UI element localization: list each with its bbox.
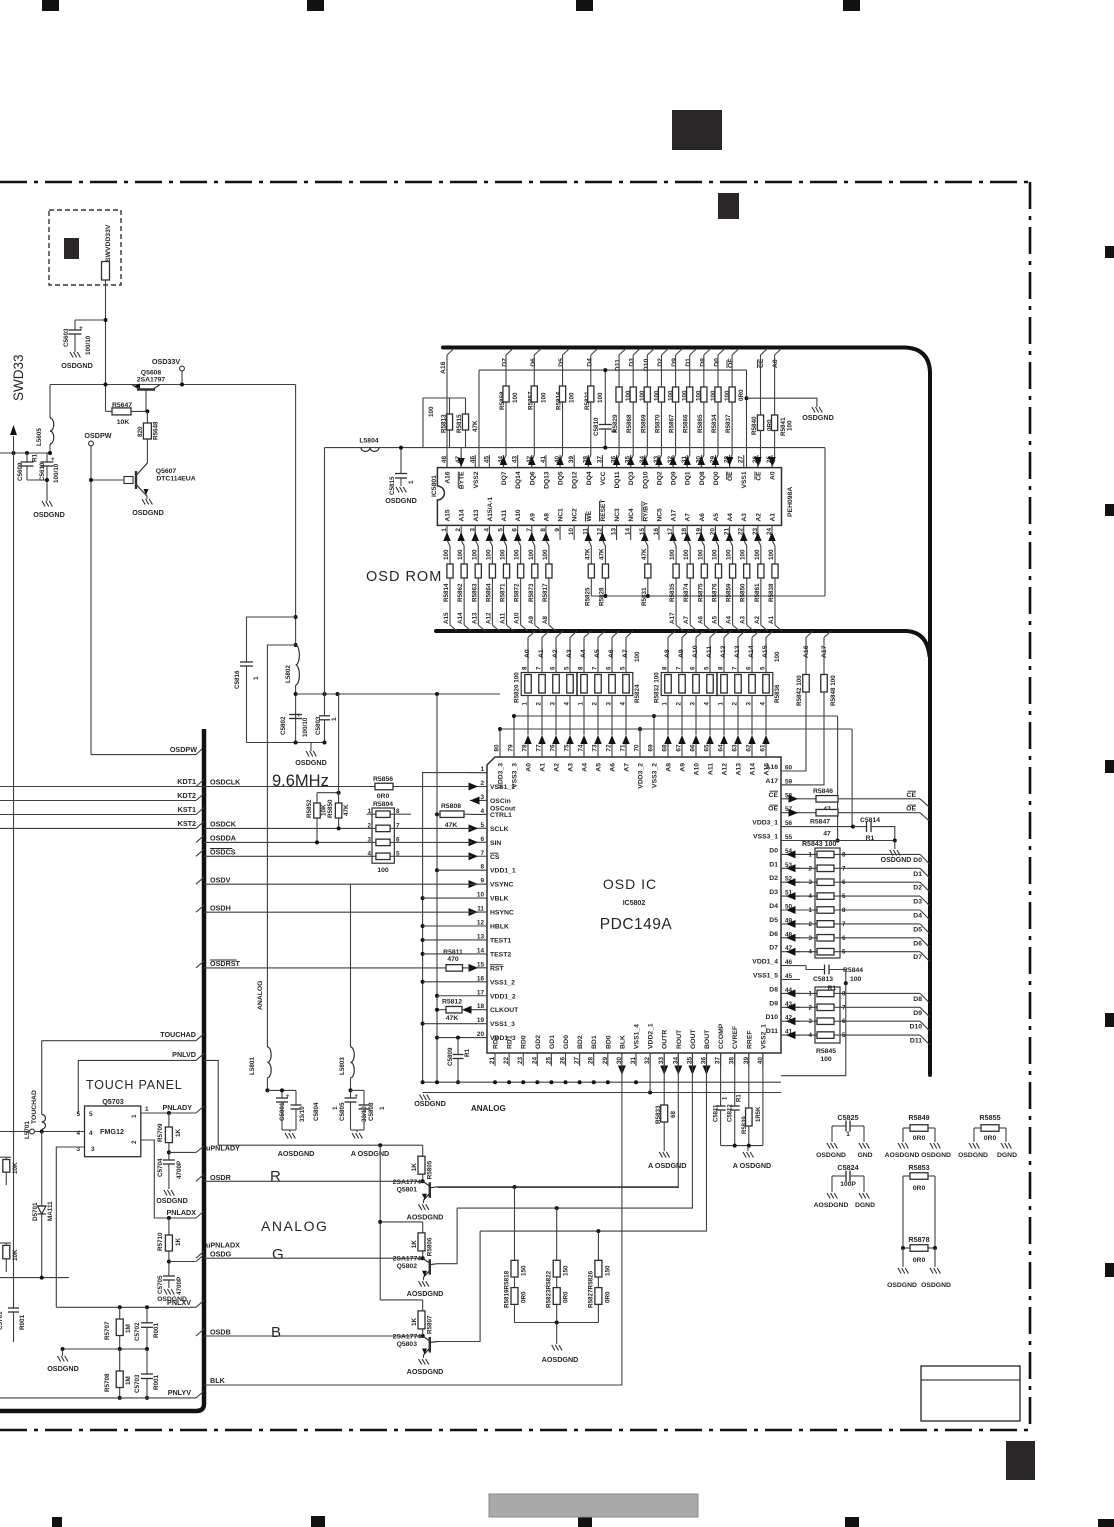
IC5802 pin 27 <box>579 1053 581 1066</box>
svg-text:1: 1 <box>131 1114 138 1118</box>
svg-text:R5710: R5710 <box>157 1232 164 1251</box>
ground rail C5801 C5804 <box>282 1129 296 1131</box>
svg-text:D10: D10 <box>643 359 650 372</box>
R5843 element pin 48 <box>786 934 796 942</box>
svg-text:R1: R1 <box>32 453 39 462</box>
ROM pin 21 <box>729 525 731 540</box>
svg-text:5: 5 <box>480 822 484 829</box>
svg-text:0R0: 0R0 <box>563 1291 570 1303</box>
svg-text:A0: A0 <box>772 359 779 368</box>
ROM pin 31 <box>686 455 688 468</box>
svg-text:2SA1774: 2SA1774 <box>393 1256 422 1263</box>
svg-text:MA111: MA111 <box>47 1201 54 1221</box>
svg-text:62: 62 <box>746 744 753 752</box>
ROM pin 19 <box>700 525 702 540</box>
supply drop for followers <box>379 1145 381 1300</box>
svg-text:VSS2: VSS2 <box>473 471 480 488</box>
wire A14 column <box>751 638 753 673</box>
arrow OUTR pin33 <box>660 1066 668 1076</box>
svg-text:A17: A17 <box>766 778 779 785</box>
wire A17 to address bus <box>675 578 677 625</box>
resistor 10K lower <box>0 1242 11 1244</box>
IC5802 pin 64 <box>723 744 725 757</box>
VCC rail of OSD ROM <box>325 447 826 449</box>
ROM pin 14 <box>630 525 632 540</box>
svg-text:VDD2_1: VDD2_1 <box>648 1023 655 1049</box>
svg-text:46: 46 <box>469 456 476 464</box>
ROM pin 11 <box>587 525 589 540</box>
svg-text:+: + <box>286 1094 290 1100</box>
IC5802 pin 74 <box>583 744 585 757</box>
svg-text:74: 74 <box>578 744 585 752</box>
svg-text:A4: A4 <box>582 763 589 772</box>
svg-text:100: 100 <box>634 651 641 662</box>
svg-text:D8: D8 <box>769 986 778 993</box>
wire B output <box>438 1231 481 1341</box>
IC5802 pin 3 <box>470 799 487 801</box>
svg-text:DQ9: DQ9 <box>671 471 678 485</box>
R5804 element 4 <box>376 853 390 860</box>
bus entry D6 <box>534 349 541 356</box>
svg-text:DQ0: DQ0 <box>713 471 720 485</box>
svg-text:A OSDGND: A OSDGND <box>351 1149 389 1158</box>
svg-text:C5704: C5704 <box>157 1158 164 1177</box>
svg-text:PEH098A: PEH098A <box>787 487 794 517</box>
wire A9 to address bus <box>534 578 536 625</box>
svg-text:27: 27 <box>574 1057 581 1065</box>
wire KDT1/OSDCLK <box>0 786 470 788</box>
wire OSDV <box>204 883 478 885</box>
svg-text:VDD1_4: VDD1_4 <box>752 959 778 966</box>
svg-text:R5805: R5805 <box>427 1160 434 1179</box>
black block inside dashed box <box>64 238 79 259</box>
svg-text:D1: D1 <box>769 861 778 868</box>
pull-up return rail to VCC <box>591 595 825 597</box>
svg-text:CS: CS <box>490 854 500 861</box>
svg-text:R5648: R5648 <box>153 421 160 440</box>
off-page arrow up <box>13 436 15 453</box>
svg-text:R: R <box>270 1168 281 1185</box>
svg-text:R5827R5826: R5827R5826 <box>587 1270 594 1308</box>
ground AOSDGND under R5833 <box>659 1152 662 1158</box>
left pullup column <box>13 453 15 1307</box>
R5845 element pin 41 <box>786 1031 796 1039</box>
svg-text:47K: 47K <box>472 420 479 432</box>
R5804 row1 stub <box>400 813 411 815</box>
svg-text:A2: A2 <box>754 615 761 624</box>
svg-text:D10: D10 <box>910 1024 923 1031</box>
bus entry D8 <box>920 993 930 1003</box>
svg-text:OSDGND: OSDGND <box>61 361 93 370</box>
svg-text:A11: A11 <box>501 509 508 521</box>
svg-text:A5: A5 <box>596 763 603 772</box>
svg-text:R5847: R5847 <box>810 819 830 826</box>
revision table divider <box>921 1379 1020 1381</box>
svg-text:C5609: C5609 <box>17 462 24 481</box>
IC5802 pin 6 <box>470 841 487 843</box>
svg-text:4: 4 <box>76 1130 80 1137</box>
svg-text:L5605: L5605 <box>36 428 43 446</box>
svg-text:25: 25 <box>545 1057 552 1065</box>
svg-text:L5802: L5802 <box>285 665 292 683</box>
bus entry D4 <box>920 910 930 920</box>
svg-text:A9: A9 <box>680 763 687 772</box>
R5843 element pin 54 <box>786 850 796 858</box>
wire A12 column <box>723 638 725 673</box>
resistor R5826 150 and R5827 0R0 stack <box>597 1231 599 1260</box>
svg-text:DQ1: DQ1 <box>685 471 692 485</box>
ground AOSDGND under C5805 <box>352 1133 355 1139</box>
svg-text:5: 5 <box>89 1111 93 1118</box>
svg-text:1: 1 <box>379 1106 386 1110</box>
svg-text:8: 8 <box>842 851 846 858</box>
wire pin10 VBLK <box>423 897 470 899</box>
svg-text:100: 100 <box>669 549 676 560</box>
svg-text:A17: A17 <box>821 645 828 658</box>
ROM pin 13 <box>616 525 618 540</box>
svg-text:D8: D8 <box>699 358 706 367</box>
svg-text:100: 100 <box>443 549 450 560</box>
svg-text:R5808: R5808 <box>441 803 461 810</box>
svg-text:A14: A14 <box>750 763 757 776</box>
svg-text:OSDGND: OSDGND <box>33 510 65 519</box>
IC5802 pin 31 <box>635 1053 637 1066</box>
svg-text:R5806: R5806 <box>427 1237 434 1256</box>
resistor R5817 100 <box>542 532 550 541</box>
wire A8 column <box>667 638 669 673</box>
wire OSDG <box>204 1257 423 1259</box>
branch to R5806 <box>380 1221 423 1223</box>
svg-text:C5705: C5705 <box>157 1275 164 1294</box>
IC5802 pin 57 <box>781 812 800 814</box>
svg-text:OSDH: OSDH <box>210 904 231 913</box>
svg-text:1: 1 <box>809 907 813 914</box>
svg-text:R5835: R5835 <box>669 583 676 602</box>
svg-text:13: 13 <box>611 528 618 536</box>
IC5802 pin 70 <box>639 744 641 757</box>
wire D4 to ROM pin 38 <box>588 402 591 468</box>
wire Q5703 pin2 PNLADX <box>141 1140 196 1218</box>
svg-text:uPNLADX: uPNLADX <box>206 1241 240 1250</box>
svg-text:D2: D2 <box>913 885 922 892</box>
ROM pin 22 <box>743 525 745 540</box>
svg-text:7: 7 <box>480 850 484 857</box>
ground AOSDGND under Q5802 <box>419 1281 422 1287</box>
svg-text:OSDGND: OSDGND <box>156 1196 188 1205</box>
svg-text:OSDV: OSDV <box>210 876 231 885</box>
svg-text:A13: A13 <box>736 763 743 776</box>
wire D0 to ROM pin 29 <box>715 402 718 468</box>
svg-text:VSS1: VSS1 <box>741 471 748 488</box>
svg-text:2: 2 <box>809 1004 813 1011</box>
resistor R5805 1K <box>422 1145 424 1156</box>
svg-text:61: 61 <box>760 744 767 752</box>
svg-text:R5846: R5846 <box>813 788 833 795</box>
svg-text:2: 2 <box>809 865 813 872</box>
svg-text:2: 2 <box>131 1140 138 1144</box>
svg-text:C5816: C5816 <box>234 670 241 689</box>
bus entry D6 <box>920 938 930 948</box>
svg-text:DQ2: DQ2 <box>656 471 663 485</box>
svg-text:1: 1 <box>253 676 260 680</box>
svg-text:A5: A5 <box>594 649 601 658</box>
svg-text:D4: D4 <box>586 358 593 367</box>
IC5802 pin 29 <box>607 1053 609 1066</box>
svg-text:D1: D1 <box>685 358 692 367</box>
IC5802 pin 19 <box>470 1023 487 1025</box>
wire G output <box>438 1208 458 1264</box>
wire L5804 down to VDD node <box>324 448 326 694</box>
capacitor C5810 <box>604 370 606 424</box>
IC5802 pin 37 <box>720 1053 722 1066</box>
svg-text:D9: D9 <box>913 1010 922 1017</box>
svg-text:C5702: C5702 <box>134 1322 141 1341</box>
svg-text:47K: 47K <box>446 1015 459 1022</box>
svg-text:OSDCK: OSDCK <box>210 820 237 829</box>
svg-text:OSD33V: OSD33V <box>152 357 181 366</box>
arrow RST pin 15 <box>469 964 479 972</box>
analog rail 1 <box>267 1089 296 1091</box>
svg-text:D0: D0 <box>713 358 720 367</box>
bus entry D11 <box>619 349 626 356</box>
IC5802 pin 50 <box>781 909 800 911</box>
wire D7 to ROM pin 44 <box>504 402 507 468</box>
right edge mark 4 <box>1105 1013 1114 1027</box>
wire uPNLADY <box>167 1150 171 1154</box>
svg-text:VSS1_5: VSS1_5 <box>753 973 778 980</box>
resistor R5848 100 <box>823 638 825 675</box>
right edge mark 3 <box>1105 760 1114 773</box>
svg-text:R5848 100: R5848 100 <box>830 675 837 706</box>
svg-text:R5870: R5870 <box>654 414 661 433</box>
svg-text:43: 43 <box>512 456 519 464</box>
svg-text:R5861: R5861 <box>754 583 761 602</box>
svg-text:R001: R001 <box>19 1314 26 1330</box>
svg-text:VDD1_2: VDD1_2 <box>490 993 516 1000</box>
junction VSS ground <box>893 839 897 843</box>
svg-text:D3: D3 <box>629 358 636 367</box>
IC5802 pin 30 <box>621 1053 623 1066</box>
svg-text:45: 45 <box>785 973 793 980</box>
common analog ground node <box>721 1145 763 1147</box>
arrow GOUT pin35 <box>688 1066 696 1076</box>
wire VSS3_2 pin69 <box>653 716 655 744</box>
svg-text:R5812: R5812 <box>442 999 462 1006</box>
svg-text:1R5K: 1R5K <box>756 1106 762 1122</box>
IC5802 pin 59 <box>781 784 800 786</box>
svg-text:10: 10 <box>477 892 485 899</box>
wire VDD2_1 pin32 down <box>649 1053 651 1093</box>
svg-text:R5709: R5709 <box>157 1123 164 1142</box>
svg-text:A16: A16 <box>440 361 447 374</box>
svg-text:1K: 1K <box>411 1240 418 1249</box>
wire A5 column <box>597 638 599 673</box>
VSS rail over IC <box>514 715 838 717</box>
ROM pin 4 <box>488 525 490 540</box>
svg-text:A14: A14 <box>457 612 464 624</box>
wire PNLYV <box>0 1397 196 1399</box>
IC5802 pin 52 <box>781 881 800 883</box>
ROM pin 38 <box>587 455 589 468</box>
svg-text:C5703: C5703 <box>134 1374 141 1393</box>
wire A3 to address bus <box>746 578 748 625</box>
svg-text:R5875: R5875 <box>697 583 704 602</box>
svg-text:820: 820 <box>137 426 144 437</box>
svg-text:A1: A1 <box>540 763 547 772</box>
bus entry OE <box>732 349 739 356</box>
R5843 element pin 47 <box>786 948 796 956</box>
svg-text:OSDPW: OSDPW <box>170 745 197 754</box>
svg-text:BOUT: BOUT <box>704 1029 711 1049</box>
wire D10 to ROM pin 34 <box>645 402 648 468</box>
ground OSDGND under C5802 <box>306 751 309 757</box>
wire VDD3_2 pin70 <box>639 729 641 744</box>
IC5802 pin 54 <box>781 853 800 855</box>
wire A13 column <box>737 638 739 673</box>
svg-text:A1: A1 <box>768 615 775 624</box>
bus entry D10 <box>920 1021 930 1030</box>
IC5802 pin 33 <box>663 1053 665 1066</box>
svg-text:DQ6: DQ6 <box>529 471 536 485</box>
wire CVREF pin38 <box>734 1053 736 1106</box>
svg-text:0R0: 0R0 <box>913 1135 926 1142</box>
svg-text:R5843 100: R5843 100 <box>802 841 836 848</box>
wire A4 column <box>583 638 585 673</box>
svg-text:47K: 47K <box>584 548 591 560</box>
svg-text:47K: 47K <box>598 548 605 560</box>
svg-text:100: 100 <box>500 549 507 560</box>
svg-text:DTC114EUA: DTC114EUA <box>156 476 195 483</box>
svg-text:VSS2_1: VSS2_1 <box>760 1024 767 1049</box>
svg-text:R5823R5822: R5823R5822 <box>546 1270 553 1308</box>
svg-text:R5842 100: R5842 100 <box>796 675 803 706</box>
svg-text:46: 46 <box>785 959 793 966</box>
ground rail C5805 C5808 <box>351 1129 365 1131</box>
svg-text:KDT2: KDT2 <box>177 791 196 800</box>
svg-text:R5708: R5708 <box>104 1373 111 1392</box>
ground OSDGND under C5815 <box>396 487 399 493</box>
registration mark bottom 2 <box>311 1516 325 1527</box>
R5804 element 3 <box>376 839 390 846</box>
wire OSDCS <box>204 855 367 857</box>
svg-text:63: 63 <box>732 744 739 752</box>
wire A9 column <box>681 638 683 673</box>
svg-text:A8: A8 <box>666 763 673 772</box>
svg-text:D0: D0 <box>913 857 922 864</box>
svg-text:NC3: NC3 <box>614 508 621 522</box>
svg-text:4: 4 <box>483 528 490 532</box>
svg-text:+: + <box>51 457 55 463</box>
capacitor C5815 <box>400 448 402 474</box>
resistor R5828 47K <box>599 532 607 541</box>
svg-text:A11: A11 <box>706 646 713 658</box>
svg-text:5: 5 <box>842 949 846 956</box>
wire pin19 VSS1_3 <box>423 1023 470 1025</box>
ROM pin 37 <box>601 455 603 468</box>
wire A7 to address bus <box>689 578 691 625</box>
ROM pin 7 <box>531 525 533 540</box>
svg-text:OSDDA: OSDDA <box>210 834 236 843</box>
svg-text:DQ7: DQ7 <box>501 471 508 485</box>
svg-text:1M: 1M <box>125 1376 132 1385</box>
wire uPNLADX <box>167 1260 171 1264</box>
svg-text:7: 7 <box>526 528 533 532</box>
sheet border dash-dot top <box>0 181 1030 184</box>
registration mark bottom 4 <box>845 1517 859 1527</box>
svg-text:5: 5 <box>842 893 846 900</box>
wire D5 to ROM pin 40 <box>560 402 563 468</box>
svg-text:3: 3 <box>809 935 813 942</box>
svg-text:ROUT: ROUT <box>676 1029 683 1049</box>
svg-text:PNLVD: PNLVD <box>172 1050 196 1059</box>
wire CE to bus <box>838 798 920 800</box>
bus entry D3 <box>920 896 930 906</box>
svg-text:TEST1: TEST1 <box>490 937 511 944</box>
svg-text:OSDGND: OSDGND <box>385 496 417 505</box>
IC5802 pin 28 <box>593 1053 595 1066</box>
IC5802 pin 10 <box>470 897 487 899</box>
svg-text:77: 77 <box>536 744 543 752</box>
large black block above border <box>672 110 722 150</box>
inductor L5605 <box>49 385 51 419</box>
svg-text:C5804: C5804 <box>313 1102 320 1121</box>
svg-text:OSDGND: OSDGND <box>802 413 834 422</box>
svg-text:R5862: R5862 <box>457 583 464 602</box>
svg-text:26: 26 <box>560 1057 567 1065</box>
IC5802 pin 45 <box>781 979 800 981</box>
ROM pin 47 <box>460 455 462 468</box>
svg-text:79: 79 <box>508 744 515 752</box>
svg-text:OUTR: OUTR <box>662 1030 669 1049</box>
svg-text:GND: GND <box>857 1152 872 1159</box>
svg-text:PNLADY: PNLADY <box>162 1103 192 1112</box>
svg-text:D3: D3 <box>769 889 778 896</box>
IC5802 pin 58 <box>781 798 800 800</box>
wire A17 to pin 59 <box>781 692 824 785</box>
svg-text:OSDR: OSDR <box>210 1173 232 1182</box>
ROM pin 24 <box>771 525 773 540</box>
VSS1 drop and OSDGND branch <box>746 370 748 468</box>
wire BOUT <box>480 1053 706 1231</box>
resistor R5806 1K <box>422 1222 424 1233</box>
IC5802 pin 40 <box>762 1053 764 1066</box>
svg-text:BYTE: BYTE <box>459 471 466 489</box>
svg-text:15: 15 <box>477 961 485 968</box>
svg-text:100: 100 <box>820 1056 832 1063</box>
svg-text:76: 76 <box>550 744 557 752</box>
wire A11 column <box>709 638 711 673</box>
ROM pin 9 <box>559 525 561 540</box>
svg-text:SIN: SIN <box>490 840 501 847</box>
wire CCOMP pin37 <box>720 1053 722 1106</box>
R5843 element pin 51 <box>786 892 796 900</box>
svg-text:70: 70 <box>634 744 641 752</box>
svg-text:2SA1797: 2SA1797 <box>137 377 166 384</box>
right edge mark 5 <box>1105 1263 1114 1277</box>
svg-text:R5807: R5807 <box>427 1315 434 1334</box>
svg-text:GD1: GD1 <box>549 1035 556 1049</box>
wire OSDCK <box>204 827 367 829</box>
wire middle ground row <box>63 1348 148 1350</box>
registration mark top 4 <box>843 0 860 11</box>
wire A16 to pin 60 <box>781 692 806 771</box>
ROM pin 20 <box>714 525 716 540</box>
wire OE to ROM pin 28 <box>730 402 733 468</box>
svg-text:8: 8 <box>842 907 846 914</box>
R5845 element pin 43 <box>786 1003 796 1011</box>
svg-text:R1: R1 <box>464 1048 471 1057</box>
svg-text:A6: A6 <box>697 615 704 624</box>
